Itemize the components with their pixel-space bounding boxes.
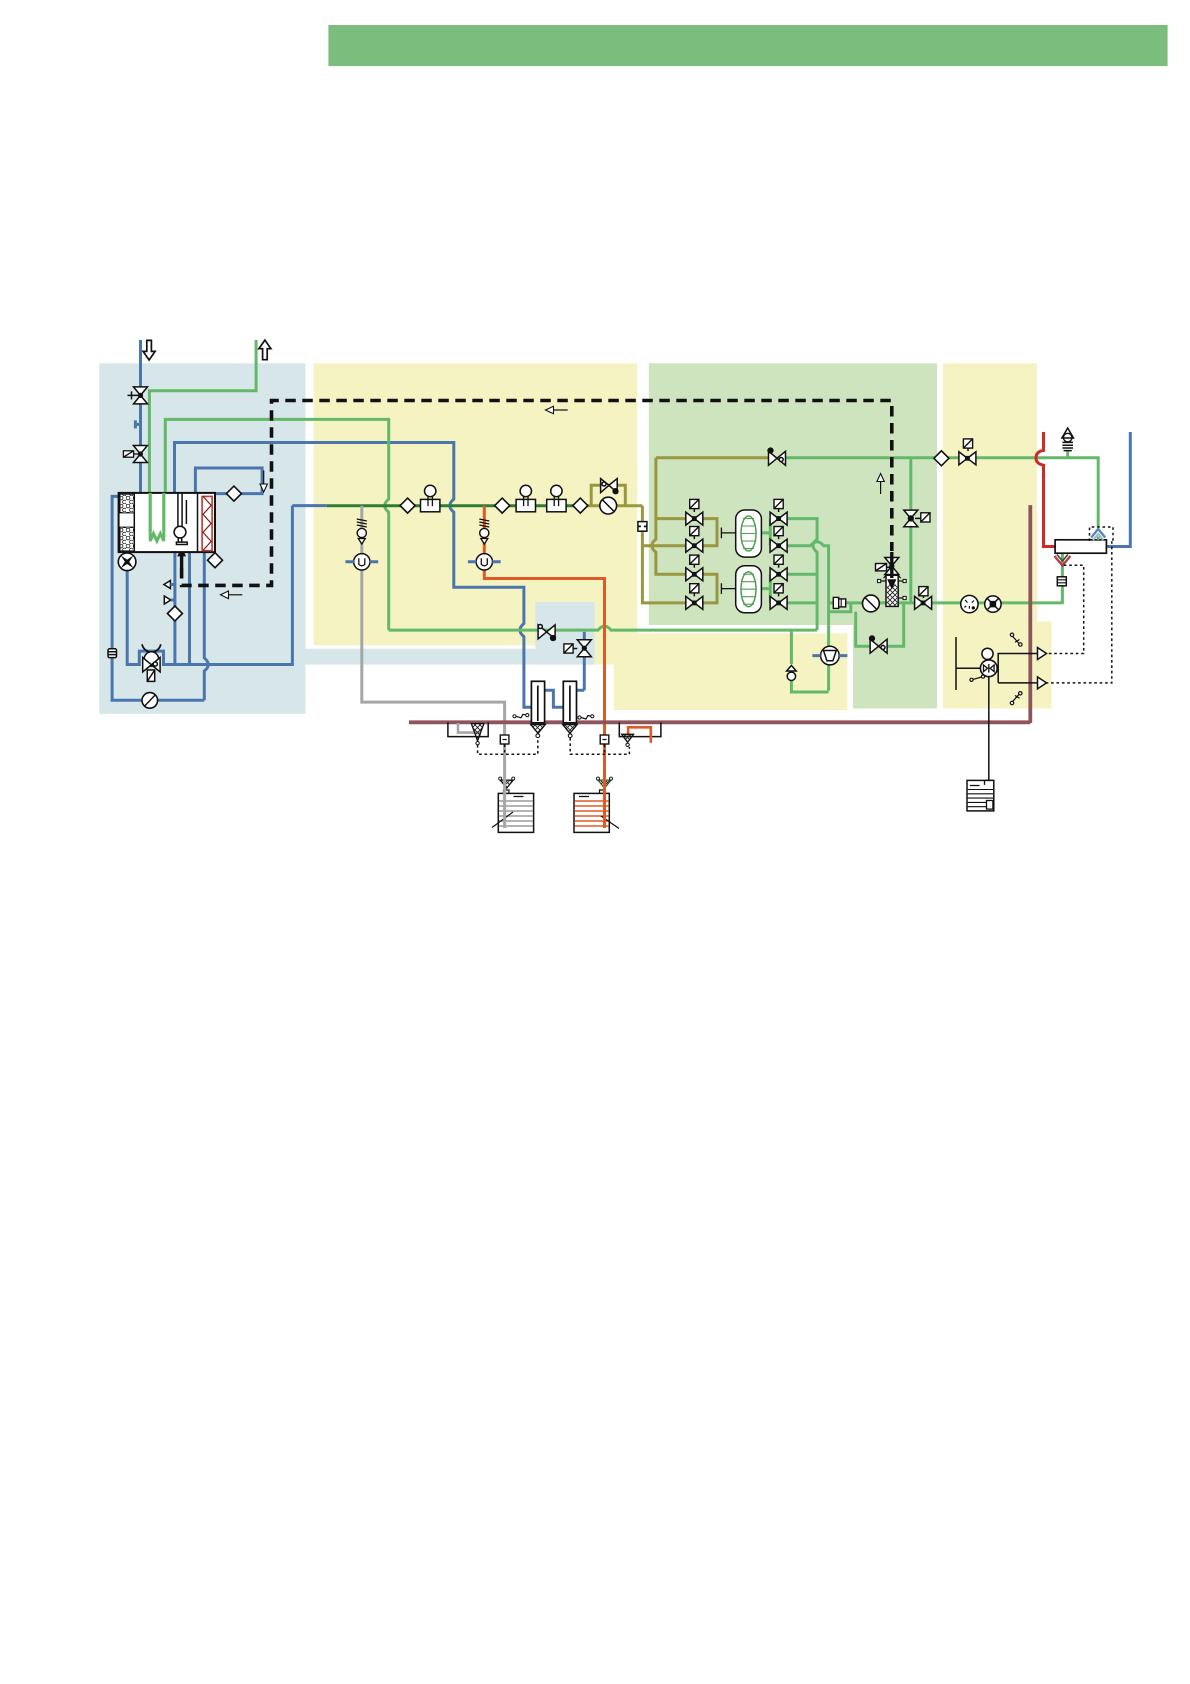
wire: blue AHU drop crossing header to pump line [204, 552, 208, 700]
small damper triangles [164, 581, 171, 589]
motor valve on top distribution line [768, 448, 785, 465]
three-way mixing valve below AHU [142, 644, 161, 681]
wire: maroon drain main [409, 720, 1030, 724]
thin arrow left (recirculation, lower) [227, 594, 242, 596]
lever switch at dosing pump [970, 675, 985, 681]
lever switch right of columns [578, 715, 594, 719]
zone background: center yellow section [314, 363, 638, 664]
wire: blue valve stub in blue box [577, 632, 585, 690]
wire: red hot line [1036, 432, 1055, 547]
wire: blue chilled line to yellow zone [175, 443, 532, 708]
waste water tank [492, 790, 534, 832]
shutoff valve after pump circuit [915, 596, 932, 609]
wire: main mixed-water line (dark green) [327, 504, 586, 507]
dosing unit bracket [956, 637, 981, 690]
damper diamond above AHU [226, 486, 241, 501]
hollow up arrow (exhaust air out) [259, 340, 271, 360]
AHU heating coil (green) [150, 529, 164, 541]
signal cable to chemical tank [988, 677, 990, 781]
wire: green pump bypass drain [856, 603, 904, 646]
dosing valve row 1 [686, 512, 703, 525]
wire: green pump circuit line [829, 553, 1063, 612]
basin funnel right [622, 734, 634, 742]
wire: olive pump bypass [591, 485, 625, 505]
wire: gray city water line [362, 506, 505, 779]
gray line into tank [503, 779, 506, 828]
wire: main mixed-water line (blue part) [292, 504, 326, 507]
chemical tank right [967, 780, 994, 811]
motor valve on fresh air line [133, 446, 147, 463]
column 2 drain funnel [563, 725, 578, 734]
shutoff diamond on main line [400, 498, 415, 513]
black signal shaft into filter [890, 552, 893, 578]
check valve pair on module top [1091, 529, 1105, 538]
neutralization basin right [619, 722, 661, 736]
pump on right circuit [985, 596, 1001, 612]
humidifier chamber 1 [721, 510, 761, 557]
green header bar [328, 25, 1167, 66]
flow meter on olive drop [638, 522, 647, 532]
wire: green exhaust-air vertical [149, 340, 256, 529]
main circulating pump [600, 497, 617, 514]
wire: olive riser feed manifold [652, 458, 769, 575]
check valve assembly on orange line [479, 519, 489, 544]
shutoff diamond on top line [934, 451, 949, 466]
drain valve on pump bypass [870, 636, 888, 653]
wire: black dashed control line AHU loop (top layer) [182, 401, 892, 586]
dosing valve row 4 [686, 596, 703, 609]
safety valve on top line [1062, 428, 1074, 451]
dotted signal line A [1046, 565, 1084, 653]
zone background: light blue connector band [306, 649, 595, 665]
wire: olive segment through pump [586, 504, 642, 507]
dotted signal line B [1046, 541, 1112, 683]
metering pump on orange line [476, 554, 492, 570]
dosing pump unit [980, 648, 997, 676]
zone background: light blue valve box [535, 602, 594, 665]
converter triangle B [1038, 677, 1047, 689]
coupling on pump circuit [833, 597, 845, 608]
ion exchange column 2 [563, 681, 576, 723]
shutoff diamond 3 on main line [573, 498, 588, 513]
relief valve on drain [787, 665, 797, 680]
shutoff diamond 2 on main line [495, 498, 510, 513]
check valve assembly on gray line [357, 519, 367, 544]
adiabatic filter cartridge [878, 575, 907, 606]
basin funnel [471, 724, 484, 742]
motor valve on olive bypass [601, 479, 618, 494]
acid tank [574, 790, 619, 832]
motor valve on humidifier supply [538, 625, 555, 641]
wire: olive drop to dosing valves [642, 506, 686, 603]
AHU partition [197, 493, 199, 552]
damper diamond on recirculation branch [167, 606, 182, 621]
wire: blue AHU drop to header [188, 552, 191, 664]
hollow down arrow (outside air in) [143, 340, 155, 360]
inline unit on gray drain [500, 735, 509, 744]
zone background: lower center yellow section [614, 633, 848, 710]
dotted drain signal right [570, 738, 629, 754]
blind stub on fresh air line [135, 420, 140, 428]
neutralization basin left [448, 722, 488, 736]
wire: olive valve-to-chamber links [703, 519, 717, 603]
wire: blue loop above AHU right [195, 468, 262, 494]
orange pipe in basin [628, 727, 651, 743]
signal lines to converters [998, 654, 1037, 683]
inline unit on orange drain [600, 735, 609, 744]
circulation pump [142, 693, 158, 709]
dotted stub orange unit [604, 745, 606, 755]
AHU exhaust fan [118, 553, 136, 571]
wire: orange concentrate line [484, 506, 604, 779]
zone background: right yellow section [943, 363, 1052, 708]
strainer on AHU left riser [108, 649, 117, 658]
AHU cooling coil (red) [202, 496, 212, 550]
converter triangle A [1038, 648, 1047, 660]
thin arrow left (recirculation, upper) [552, 409, 568, 411]
motor valve above adiabatic filter [885, 558, 899, 575]
sensor unit 2 on main line [516, 485, 535, 512]
wire: maroon drain riser [1028, 505, 1032, 723]
strainer under funnel [1057, 577, 1066, 586]
zone background: green process lower part [853, 621, 937, 709]
dotted drain signal left [478, 738, 538, 754]
AHU casing [119, 493, 215, 552]
zone background: green process section [649, 363, 937, 625]
dotted stub gray unit [504, 745, 506, 755]
sensor unit 1 on main line [421, 485, 440, 512]
outlet valve row 4 [770, 596, 787, 609]
membrane module [1055, 540, 1106, 553]
lever switch lower right [1010, 692, 1022, 705]
wire: green manifold collector A [787, 519, 817, 631]
wire: blue damper branch through diamond [173, 552, 176, 664]
wire: green heating coil return to yellow zone [165, 419, 388, 630]
zone background: supply air / blue section [99, 363, 305, 714]
gray pipe in basin [458, 723, 480, 736]
fan unit on drain riser [821, 646, 840, 665]
outlet valve row 1 [770, 512, 787, 525]
sensor unit 3 on main line [547, 485, 566, 512]
outlet valve row 2 [770, 539, 787, 552]
dosing valve row 2 [686, 539, 703, 552]
column 1 drain funnel [531, 725, 546, 734]
lever switch upper right [1010, 633, 1022, 646]
AHU supply fan [174, 493, 187, 545]
outlet valve row 3 [770, 568, 787, 581]
wire: blue AHU left riser [112, 496, 204, 700]
dosing valve row 3 [686, 568, 703, 581]
wire: green humidifier supply line [389, 626, 817, 630]
metering pump on gray line [354, 554, 370, 570]
orange line into tank [603, 779, 606, 828]
thin arrow down (air path) [263, 471, 265, 486]
flow indicator on right circuit [961, 595, 978, 612]
wire: green riser to top line [909, 458, 912, 603]
wire: blue column bridge [545, 690, 564, 707]
damper diamond below AHU [208, 553, 223, 568]
wire: green drain with relief [791, 630, 828, 692]
motor valve on green riser [904, 510, 918, 527]
manual valve on fresh air line [134, 387, 148, 404]
gray sampling funnel [500, 780, 513, 788]
AHU heat recovery wheel [120, 494, 134, 513]
acid sampling funnel [598, 780, 611, 788]
dotted box around check valve [1090, 527, 1114, 541]
wire: blue cold line top right [1106, 432, 1130, 547]
wire: green manifold collector B [787, 542, 829, 691]
softener inlet motor valve [577, 640, 591, 657]
solid arrow into AHU bottom [177, 546, 186, 568]
AHU heating coil feed pipes [150, 493, 164, 531]
wire: blue exhaust fan drop to mixing valve header [127, 506, 292, 665]
red drain funnel below module [1054, 555, 1070, 566]
lever switch left of columns [513, 714, 529, 718]
motor valve on top line right [959, 452, 976, 465]
humidifier chamber 2 [721, 566, 761, 613]
wire: green chamber-to-valve links [761, 519, 786, 603]
wire: blue fresh-air supply vertical [139, 340, 142, 493]
wire: green top distribution line [786, 451, 1098, 527]
thin arrow up (to filter) [880, 480, 882, 494]
ion exchange column 1 [531, 681, 544, 723]
pump on green circuit [863, 595, 880, 612]
